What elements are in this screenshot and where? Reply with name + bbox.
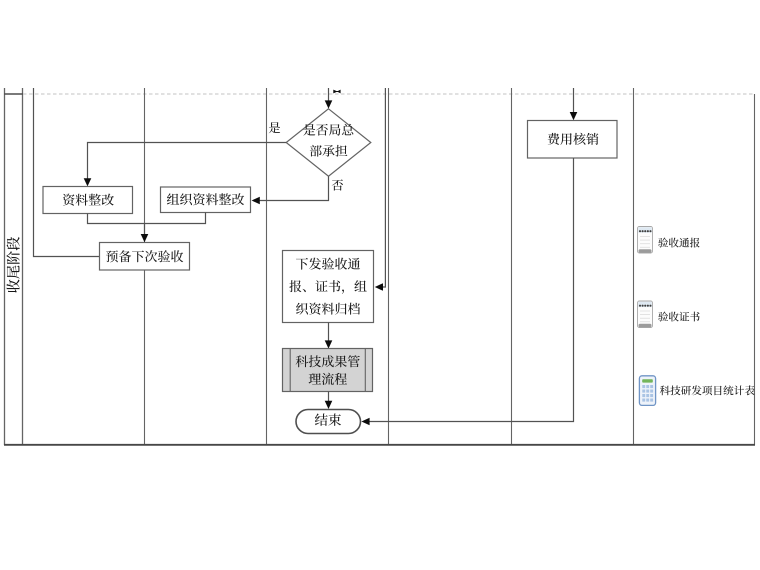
icon label 科技研发项目统计表 <box>660 385 755 395</box>
process box 费用核销 <box>528 121 618 159</box>
document icon 验收通报 <box>638 227 653 254</box>
wire: loop from 预备下次验收 up to top <box>34 88 100 257</box>
lane divider x=633 <box>633 88 635 445</box>
lane divider x=144 <box>144 88 146 445</box>
bottom border <box>4 444 755 446</box>
wire: 是 branch to 资料整改 <box>84 143 287 187</box>
phase label column outer border <box>4 88 6 445</box>
phase label column inner border <box>22 88 24 445</box>
junction mark above decision <box>333 90 340 94</box>
wire: 科技成果管理流程 to 结束 <box>325 392 333 410</box>
lane divider x=511 <box>511 88 513 445</box>
wire: 下发验收通报 to 科技成果管理流程 <box>325 323 333 349</box>
label 否 <box>332 179 343 190</box>
icon label 验收通报 <box>658 238 700 248</box>
phase label 收尾阶段 (vertical) <box>7 237 20 293</box>
phase label column top edge <box>4 93 23 95</box>
wire: from top down into 下发验收通报 (right side) <box>375 88 386 291</box>
decision diamond 是否局总部承担 <box>286 109 371 176</box>
wire: merge from 资料整改 and 组织资料整改 <box>88 213 206 243</box>
wire: 否 branch to 组织资料整改 <box>252 176 329 204</box>
wire: into decision from top <box>325 88 333 109</box>
phase row top boundary (dashed) <box>23 93 754 95</box>
lane divider x=389 <box>388 88 390 445</box>
wire: 费用核销 down and into 结束 <box>361 158 573 425</box>
process box 预备下次验收 <box>100 243 190 271</box>
label 是 <box>269 122 280 133</box>
right outer border <box>754 94 756 445</box>
process box 组织资料整改 <box>161 187 251 213</box>
predefined process 科技成果管理流程 (gray) <box>283 349 373 392</box>
wire: from top into 费用核销 <box>570 88 578 120</box>
table icon 科技研发项目统计表 <box>639 376 655 406</box>
process box 资料整改 <box>43 187 133 214</box>
icon label 验收证书 <box>658 312 699 322</box>
process box 下发验收通报、证书，组织资料归档 <box>283 251 374 323</box>
document icon 验收证书 <box>638 301 653 328</box>
terminator 结束 <box>296 410 361 434</box>
lane divider x=266 <box>266 88 268 445</box>
